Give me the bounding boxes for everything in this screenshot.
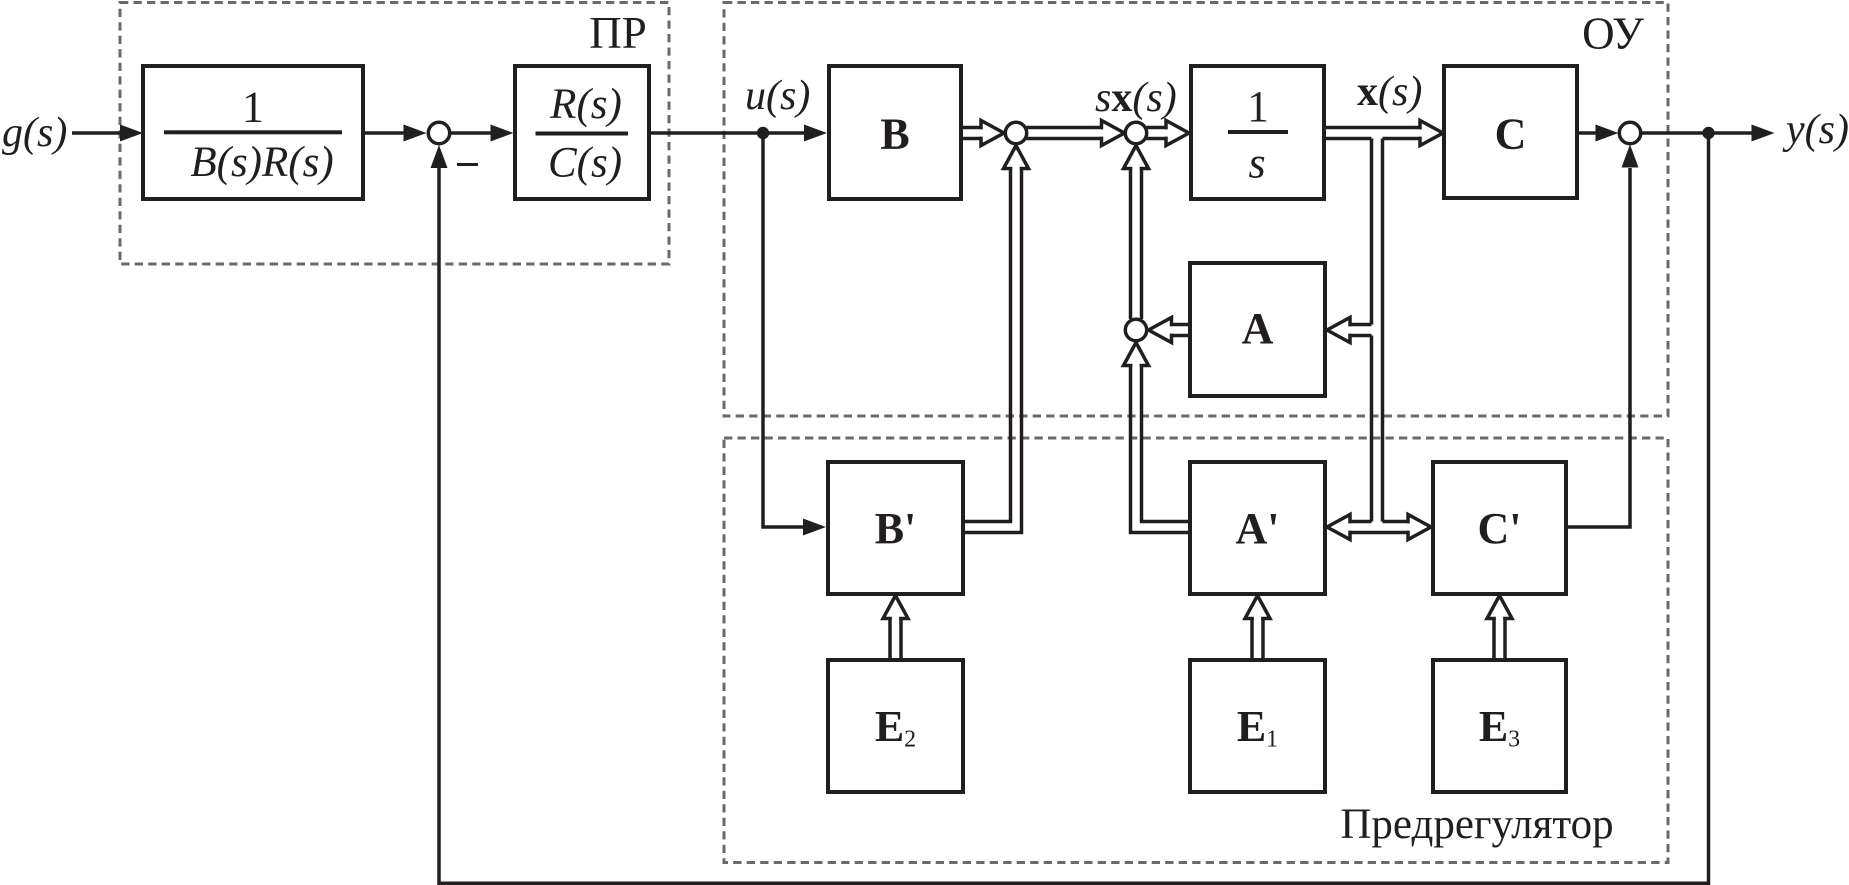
wire S1 to block R(s)/C(s): [449, 131, 491, 135]
hollow arrowhead into C: [1420, 121, 1443, 146]
svg-text:C: C: [1495, 110, 1527, 159]
node u(s) dot: [757, 127, 769, 139]
block B: [829, 66, 961, 199]
feedback wire y(s) to S1 (bottom loop): [439, 133, 1709, 883]
hollow arrowhead into S3: [1102, 121, 1125, 146]
wire block1 to summing junction S1: [363, 131, 404, 135]
wire block2 to B with node u(s): [649, 131, 804, 135]
junction S2: [1005, 122, 1026, 143]
hollow arrowhead up into S2: [1004, 146, 1029, 169]
svg-text:ПР: ПР: [589, 8, 647, 58]
svg-text:u(s): u(s): [745, 73, 810, 119]
svg-text:C': C': [1478, 504, 1522, 553]
hollow arrowhead up into S5: [1124, 343, 1149, 366]
block E1: [1190, 660, 1325, 792]
junction S3: [1125, 122, 1146, 143]
block E3: [1433, 660, 1566, 792]
svg-text:ОУ: ОУ: [1582, 9, 1644, 59]
junction S4: [1619, 122, 1640, 143]
arrowhead into block 1/B(s)R(s): [120, 125, 143, 142]
svg-text:s: s: [1248, 139, 1265, 188]
block 1/B(s)R(s): [143, 66, 363, 199]
block R(s)/C(s): [515, 66, 649, 199]
wire C' output to S4 (right then up): [1566, 168, 1630, 527]
hollow arrowhead into 1/s: [1166, 121, 1189, 146]
svg-text:x(s): x(s): [1357, 69, 1422, 115]
pipe branch into A right side: [1350, 323, 1372, 327]
pipe B to S2 (vector double line): [961, 126, 982, 130]
svg-text:sx(s): sx(s): [1095, 75, 1177, 121]
pipe E1 to A': [1250, 619, 1254, 660]
junction S5: [1125, 319, 1146, 340]
svg-text:A: A: [1242, 304, 1274, 353]
svg-text:C(s): C(s): [548, 140, 622, 187]
arrowhead into S4: [1596, 125, 1619, 142]
hollow arrowhead up into S3: [1124, 146, 1149, 169]
svg-text:y(s): y(s): [1782, 107, 1849, 153]
hollow arrowhead up into C': [1487, 596, 1512, 619]
svg-text:B': B': [875, 504, 917, 553]
svg-text:A': A': [1236, 504, 1280, 553]
svg-text:1: 1: [242, 83, 264, 132]
block C: [1444, 66, 1577, 198]
block A: [1190, 263, 1325, 396]
svg-text:B: B: [880, 110, 909, 159]
summing junction S1: [428, 122, 449, 143]
arrowhead y(s): [1752, 125, 1775, 142]
hollow arrowhead into A: [1327, 318, 1350, 343]
arrowhead into block2: [491, 125, 514, 142]
pipe E3 to C': [1492, 619, 1496, 660]
svg-text:B(s)R(s): B(s)R(s): [190, 139, 333, 186]
block B': [828, 462, 963, 594]
hollow arrowhead up into B': [883, 596, 908, 619]
hollow arrowhead into S5: [1149, 318, 1172, 343]
arrowhead up into S4: [1622, 145, 1639, 168]
hollow arrowhead into S2: [981, 121, 1004, 146]
block 1/s: [1191, 66, 1324, 199]
pipe x(s) branch down (vertical double line): [1370, 139, 1374, 325]
svg-text:R(s): R(s): [549, 81, 622, 128]
pipe A' output to S5 (left then up): [1131, 366, 1191, 533]
pipe S3 to block 1/s: [1147, 126, 1168, 130]
bidirectional pipe between A' and C': [1350, 531, 1408, 535]
arrowhead into B': [803, 519, 826, 536]
pipe B' output to S2 (right then up): [963, 169, 1022, 533]
dashed box OU (ОУ object group): [724, 3, 1668, 417]
hollow arrowhead into C': [1408, 515, 1431, 540]
block C': [1433, 462, 1566, 594]
dashed box PR (ПР regulator group): [120, 3, 669, 265]
minus sign at S1: [457, 163, 478, 166]
wire S4 to y(s) output with node: [1641, 131, 1752, 135]
pipe S2 to S3: [1027, 126, 1104, 130]
pipe 1/s to C with branch of x(s): [1324, 126, 1421, 130]
arrowhead up into S1: [431, 145, 448, 168]
wire C to S4: [1577, 131, 1597, 135]
pipe A output to S5: [1172, 323, 1191, 327]
arrowhead into S1: [404, 125, 427, 142]
hollow arrowhead up into A': [1245, 596, 1270, 619]
svg-text:Предрегулятор: Предрегулятор: [1340, 801, 1613, 848]
wire u node down to B': [763, 133, 803, 527]
pipe S5 up to S3: [1129, 169, 1133, 319]
svg-text:1: 1: [1247, 82, 1269, 131]
block E2: [828, 660, 963, 792]
arrowhead into B: [804, 125, 827, 142]
svg-text:g(s): g(s): [2, 110, 67, 156]
node dot after S4: [1702, 127, 1714, 139]
pipe E2 to B': [888, 619, 892, 660]
block A': [1190, 462, 1325, 594]
dashed box Predregulyator: [724, 438, 1668, 863]
hollow arrowhead into A': [1327, 515, 1350, 540]
wire g(s) input: [72, 131, 122, 135]
